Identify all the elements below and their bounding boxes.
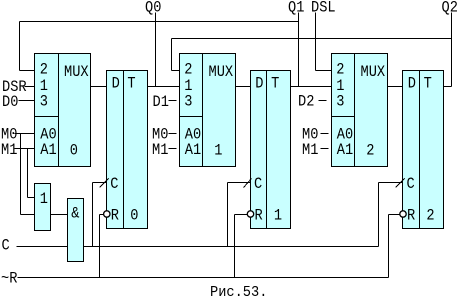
mux DD2.1 select-section divider (180, 116, 203, 118)
svg-text:&: & (71, 205, 80, 223)
svg-text:MUX: MUX (64, 63, 89, 81)
wire clock branch up to FF1 C (92, 183, 94, 247)
mux DD2.1 body (180, 54, 236, 167)
flip-flop DD1.2 body (107, 71, 148, 229)
wire Q1 vertical (298, 13, 300, 87)
svg-text:T: T (127, 75, 135, 93)
flip-flop DD3.2 body (403, 71, 444, 229)
svg-text:Q1: Q1 (288, 0, 304, 17)
AND gate (&amp;) box (68, 199, 84, 262)
flip-flop DD3.2 inversion circle on R (400, 211, 406, 217)
svg-text:1: 1 (40, 190, 48, 208)
svg-text:2: 2 (366, 142, 374, 160)
svg-text:A1: A1 (337, 141, 353, 159)
flip-flop DD2.2 inversion circle on R (247, 211, 253, 217)
svg-text:2: 2 (336, 61, 344, 79)
mux DD1.1 select-section divider (35, 116, 59, 118)
svg-text:2: 2 (426, 207, 434, 225)
svg-text:C: C (2, 237, 10, 255)
wire reset corner up to FF3 R (388, 215, 390, 278)
flip-flop DD2.2 divider (266, 71, 268, 229)
wire M1 stub into OR gate (28, 197, 35, 199)
wire clock stub into FF3 C (379, 182, 403, 184)
svg-text:3: 3 (336, 92, 344, 110)
svg-text:2: 2 (184, 61, 192, 79)
svg-text:1: 1 (274, 207, 282, 225)
wire clock corner up to FF3 C (378, 183, 380, 247)
svg-text:Рис.53.: Рис.53. (210, 284, 267, 301)
mux DD3.1 pin-column divider (354, 54, 356, 167)
wire M0 to MUX1 pin A0 (15, 133, 35, 135)
wire D2 dash to MUX3 pin 3 (319, 100, 327, 102)
wire M1 to MUX1 pin A1 (15, 148, 35, 150)
wire clock stub into FF2 C (228, 182, 251, 184)
flip-flop DD3.2 dynamic clock slash (396, 179, 405, 188)
svg-text:C: C (407, 175, 415, 193)
flip-flop DD2.2 body (251, 71, 291, 229)
svg-text:1: 1 (214, 142, 222, 160)
svg-text:D0: D0 (2, 93, 18, 111)
svg-text:Q2: Q2 (442, 0, 458, 17)
wire gated clock net (AND output) (84, 246, 379, 248)
svg-text:T: T (271, 75, 279, 93)
svg-text:R: R (111, 207, 120, 225)
svg-text:MUX: MUX (209, 63, 234, 81)
svg-text:T: T (424, 75, 432, 93)
wire M1 vertical down to OR gate (27, 149, 29, 198)
wire M0 vertical down to OR gate (20, 134, 22, 215)
wire Q2 elbow to FF3 output (444, 86, 452, 88)
svg-text:2: 2 (40, 61, 48, 79)
wire MUX1 output to FF1 D input (91, 86, 107, 88)
svg-text:D: D (408, 75, 416, 93)
wire OR output to AND input (51, 214, 68, 216)
wire DSL vertical (315, 13, 317, 71)
wire M0 dash to MUX3 pin A0 (321, 133, 329, 135)
wire Q0 vertical (155, 13, 157, 87)
wire stub into MUX1 pin 2 (20, 70, 35, 72)
svg-text:R: R (407, 207, 416, 225)
svg-text:D2: D2 (298, 93, 314, 111)
wire M0 dash to MUX2 pin A0 (169, 133, 177, 135)
svg-text:R: R (255, 207, 264, 225)
wire M1 dash to MUX2 pin A1 (169, 148, 177, 150)
svg-text:A1: A1 (185, 141, 201, 159)
wire reset stub into FF2 R circle (235, 214, 248, 216)
svg-text:A1: A1 (40, 141, 56, 159)
svg-text:3: 3 (40, 92, 48, 110)
OR gate (1) box (35, 184, 51, 231)
wire stub into MUX2 pin 2 (172, 70, 180, 72)
flip-flop DD1.2 divider (123, 71, 125, 229)
mux DD3.1 select-section divider (332, 116, 355, 118)
flip-flop DD1.2 inversion circle on R (104, 211, 110, 217)
wire D1 dash to MUX2 pin 3 (169, 100, 177, 102)
svg-text:M1: M1 (302, 141, 318, 159)
flip-flop DD3.2 divider (419, 71, 421, 229)
wire reset stub into FF3 R circle (389, 214, 400, 216)
wire D0 to MUX1 pin 3 (19, 100, 35, 102)
svg-text:0: 0 (130, 207, 138, 225)
svg-text:MUX: MUX (361, 63, 386, 81)
wire reset stub into FF1 R circle (100, 214, 104, 216)
mux DD1.1 body (35, 54, 91, 167)
wire reset branch up to FF1 R (99, 215, 101, 278)
wire line B corner down to MUX2 pin 2 (171, 39, 173, 71)
wire M0 stub into OR gate (21, 214, 35, 216)
wire clock stub into FF1 C (93, 182, 107, 184)
wire FF2 output to MUX3 pin 1 (node Q1) (291, 86, 332, 88)
wire MUX2 output to FF2 D input (236, 86, 251, 88)
wire reset branch up to FF2 R (234, 215, 236, 278)
wire clock branch up to FF2 C (227, 183, 229, 247)
wire Q2 vertical (451, 13, 453, 87)
wire line A corner down to MUX1 pin 2 (19, 22, 21, 71)
wire Q1-to-MUX1-pin2 (top line A) (20, 21, 299, 23)
mux DD2.1 pin-column divider (202, 54, 204, 167)
mux DD3.1 body (332, 54, 388, 167)
wire MUX3 output to FF3 D input (388, 86, 403, 88)
svg-text:D: D (112, 75, 120, 93)
svg-text:Q0: Q0 (145, 0, 161, 17)
wire M1 dash to MUX3 pin A1 (321, 148, 329, 150)
svg-text:M1: M1 (1, 141, 17, 159)
svg-text:C: C (110, 175, 118, 193)
mux DD1.1 pin-column divider (58, 54, 60, 167)
wire DSL stub into MUX3 pin 2 (316, 70, 332, 72)
wire ~R net horizontal (18, 277, 389, 279)
flip-flop DD1.2 dynamic clock slash (100, 179, 109, 188)
wire C input to AND gate (17, 246, 68, 248)
svg-text:D: D (255, 75, 263, 93)
svg-text:C: C (254, 175, 262, 193)
wire FF1 output to MUX2 pin 1 (node Q0) (148, 86, 180, 88)
wire DSR to MUX1 pin 1 (25, 86, 35, 88)
svg-text:D1: D1 (153, 93, 169, 111)
svg-text:DSL: DSL (311, 0, 336, 17)
flip-flop DD2.2 dynamic clock slash (244, 179, 252, 188)
svg-text:~R: ~R (1, 270, 18, 288)
svg-text:0: 0 (70, 142, 78, 160)
wire Q2-to-MUX2-pin2 (top line B) (172, 38, 452, 40)
svg-text:M1: M1 (152, 141, 168, 159)
svg-text:3: 3 (184, 92, 192, 110)
